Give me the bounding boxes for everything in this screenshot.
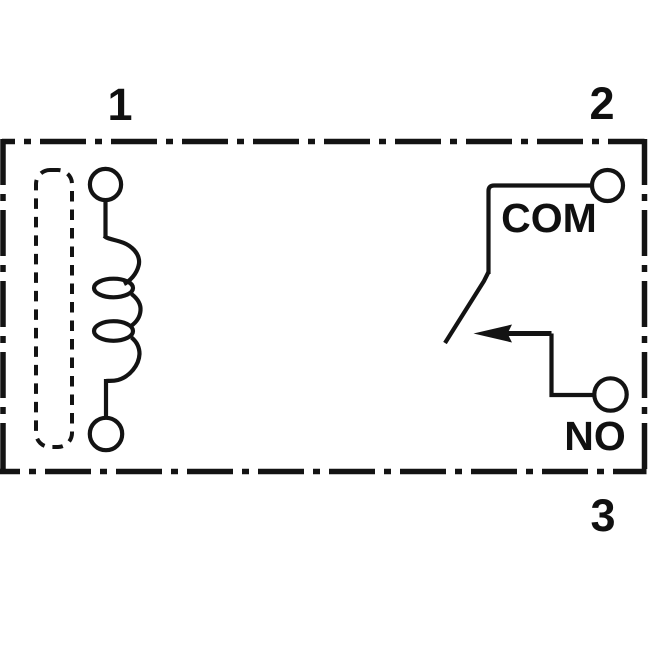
actuation arrow shaft: [505, 331, 552, 336]
svg-text:1: 1: [107, 79, 132, 130]
wire from COM terminal to switch pivot: [489, 186, 592, 275]
relay body outline left edge (dash-dot): [0, 139, 6, 472]
svg-text:3: 3: [590, 490, 615, 541]
coil core (dashed rounded rectangle): [36, 170, 72, 447]
svg-text:NO: NO: [564, 413, 626, 459]
coil terminal circle (bottom): [90, 418, 122, 450]
COM terminal circle pin 2: [592, 170, 623, 201]
relay body outline bottom edge (dash-dot): [0, 469, 647, 475]
coil winding crossover loop 2: [94, 321, 133, 341]
NO terminal circle pin 3: [594, 378, 626, 410]
coil winding turn 2 (middle right arc): [131, 294, 141, 326]
coil terminal circle pin 1 (top): [90, 169, 121, 200]
actuation arrow head: [474, 325, 513, 343]
coil winding turn 1 (upper right arc): [105, 236, 140, 284]
coil winding crossover loop 1: [94, 279, 133, 298]
relay body outline top edge (dash-dot): [2, 139, 645, 145]
svg-text:2: 2: [589, 78, 614, 129]
svg-text:COM: COM: [501, 195, 597, 241]
relay body outline right edge (dash-dot): [642, 139, 648, 474]
wire from arrow corner down to NO terminal: [552, 334, 593, 396]
wire from coil bottom to lower coil terminal: [104, 379, 108, 417]
switch arm (movable contact): [445, 272, 489, 343]
wire from pin 1 to coil top: [103, 201, 107, 239]
coil winding turn 3 (lower right arc): [106, 338, 139, 382]
